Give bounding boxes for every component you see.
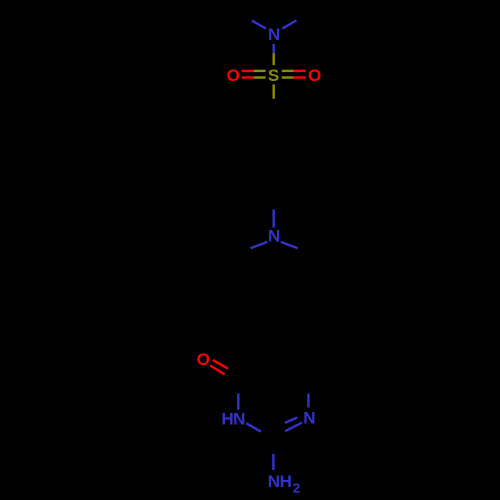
svg-text:N: N (268, 25, 280, 44)
svg-text:N: N (268, 472, 280, 491)
svg-text:N: N (268, 227, 280, 246)
svg-text:H: H (221, 410, 233, 429)
svg-text:O: O (197, 350, 210, 369)
svg-text:N: N (303, 409, 315, 428)
svg-text:N: N (233, 410, 245, 429)
svg-text:H: H (280, 472, 292, 491)
svg-text:O: O (227, 66, 240, 85)
svg-text:O: O (308, 66, 321, 85)
svg-text:S: S (268, 66, 279, 85)
svg-text:2: 2 (293, 480, 300, 495)
